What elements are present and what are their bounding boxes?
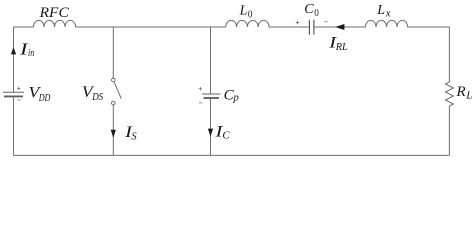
svg-text:DS: DS (91, 92, 103, 103)
svg-text:L: L (465, 90, 472, 102)
label C0 (304, 2, 319, 19)
label Lx (376, 3, 391, 20)
arrow IS (down) (111, 130, 116, 138)
arrow IRL (left) (335, 24, 344, 30)
wire Lx to top-right corner (408, 26, 450, 28)
svg-text:RL: RL (335, 41, 348, 53)
inductor L0 coil (226, 20, 269, 27)
battery VDD polarity marks (17, 87, 21, 100)
svg-text:RFC: RFC (39, 5, 70, 21)
svg-text:p: p (232, 92, 239, 104)
capacitor Cp plates (202, 94, 221, 98)
wire bottom rail (14, 154, 450, 156)
svg-text:in: in (28, 48, 34, 59)
label IC (214, 123, 230, 142)
label IRL (328, 34, 348, 54)
switch blade (114, 82, 121, 99)
resistor RL zigzag (445, 82, 453, 106)
capacitor C0 polarity marks (296, 21, 328, 25)
label VDD (29, 83, 51, 104)
wire C0 to Lx (314, 26, 365, 28)
switch terminal circle bottom (112, 101, 116, 105)
svg-text:0: 0 (314, 8, 319, 19)
switch terminal circle top (112, 78, 116, 82)
arrow Iin (up) (11, 47, 16, 54)
inductor RFC coil (34, 20, 76, 27)
label Cp (224, 87, 240, 103)
wire left vertical lower (13, 97, 15, 155)
label IS (124, 123, 138, 142)
svg-text:L: L (239, 4, 248, 19)
svg-text:R: R (456, 84, 466, 100)
label Iin (19, 40, 34, 59)
wire top segment left of RFC (14, 26, 34, 28)
capacitor C0 plates (309, 20, 314, 35)
inductor Lx coil (366, 20, 408, 27)
wire right vertical upper (448, 27, 450, 82)
wire Cp branch lower (210, 98, 212, 155)
wire L0 to C0 (269, 26, 309, 28)
svg-text:L: L (376, 3, 385, 18)
wire right vertical lower (448, 106, 450, 155)
wire switch branch lower (112, 105, 114, 155)
wire left vertical upper (13, 27, 15, 92)
svg-text:C: C (304, 2, 314, 17)
capacitor Cp polarity marks (199, 87, 203, 103)
wire switch branch upper (112, 27, 114, 78)
battery VDD plates (3, 92, 24, 96)
svg-text:DD: DD (38, 93, 51, 104)
svg-text:x: x (385, 8, 391, 20)
label RL (456, 84, 473, 102)
svg-text:C: C (222, 129, 230, 141)
wire top segment RFC to L0 (76, 26, 226, 28)
wire Cp branch upper (210, 27, 212, 94)
label VDS (82, 83, 104, 103)
label L0 (239, 4, 253, 21)
svg-text:0: 0 (248, 10, 253, 21)
arrow IC (down) (208, 129, 213, 137)
svg-text:S: S (131, 132, 137, 143)
